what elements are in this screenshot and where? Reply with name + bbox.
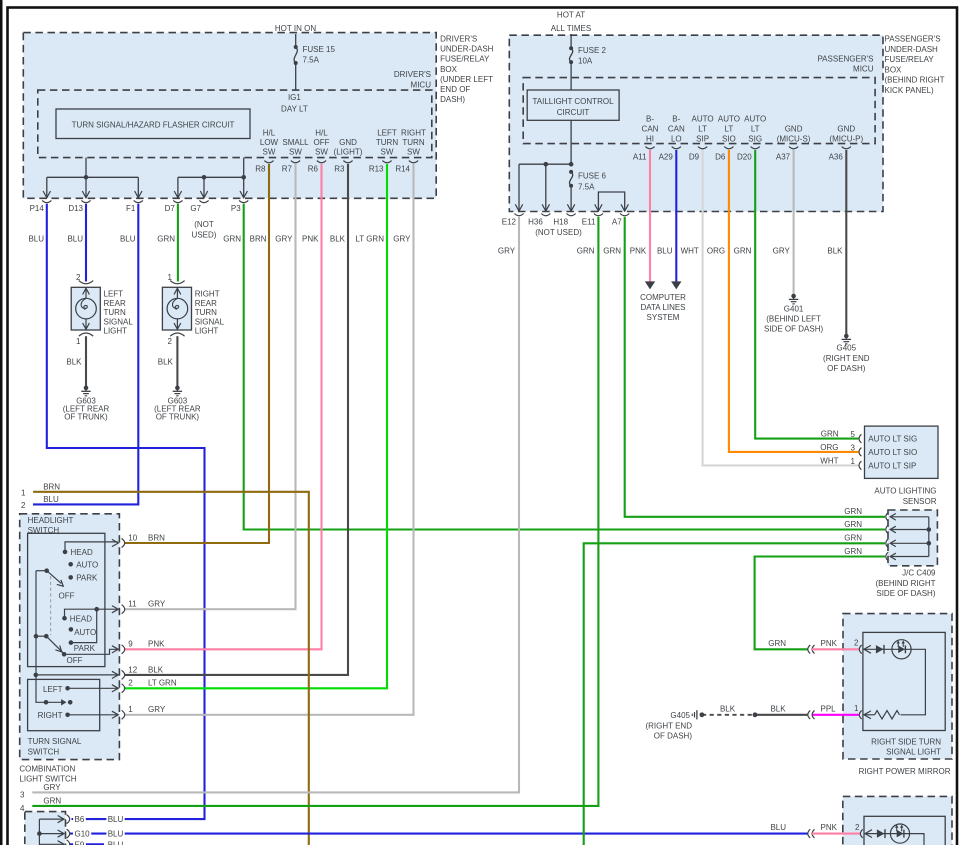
svg-text:LEFT: LEFT (43, 685, 63, 694)
svg-text:A11: A11 (633, 153, 647, 162)
left rear turn signal light filament (81, 298, 87, 309)
wire PNK A11 to computer data lines (649, 150, 651, 282)
svg-text:GRN: GRN (844, 547, 862, 556)
connector arc below left rear turn signal light (79, 333, 93, 336)
svg-text:10A: 10A (578, 57, 593, 66)
svg-text:P14: P14 (30, 204, 45, 213)
arrow into H18 (567, 204, 574, 211)
svg-text:1: 1 (851, 457, 856, 466)
svg-text:R13: R13 (369, 165, 384, 174)
svg-text:(BEHIND LEFT: (BEHIND LEFT (766, 315, 821, 324)
svg-text:OF TRUNK): OF TRUNK) (64, 412, 108, 421)
turn signal LEFT contact (65, 686, 70, 691)
mirror pin 2 arrow (864, 645, 871, 653)
wire BLU P14 to B6 (47, 204, 205, 819)
wire BLK splice to connector (755, 714, 808, 716)
svg-text:GRN: GRN (157, 234, 175, 243)
J/C C409 junction row2 (927, 527, 932, 532)
svg-text:BLU: BLU (108, 840, 124, 845)
svg-text:GND: GND (837, 124, 855, 133)
J/C C409 internal branch row 2 (890, 529, 929, 531)
svg-text:SIGNAL LIGHT: SIGNAL LIGHT (886, 747, 941, 756)
wire fuse 2 to taillight circuit (570, 62, 572, 90)
svg-text:HI: HI (646, 134, 654, 143)
svg-text:7.5A: 7.5A (303, 56, 320, 65)
svg-text:LT GRN: LT GRN (355, 234, 384, 243)
svg-text:DAY LT: DAY LT (281, 105, 308, 114)
left mirror pin 2 arc (860, 829, 862, 838)
bottom connector internal bus (38, 819, 40, 845)
switch A AUTO contact (68, 562, 73, 567)
J/C C409 pin arrow row 4 (890, 553, 896, 560)
wire PPL to right mirror pin 1 (812, 714, 859, 716)
left rear turn signal light bulb circle (76, 298, 97, 319)
svg-text:J/C C409: J/C C409 (902, 569, 936, 578)
switch pin 11 arc (122, 605, 125, 614)
passenger's under-dash fuse/relay box (509, 35, 883, 211)
wire OFF-B to pin 9 (64, 649, 118, 654)
svg-text:(RIGHT END: (RIGHT END (645, 721, 692, 730)
auto lighting sensor pin 5 arc (859, 434, 861, 443)
svg-text:LT GRN: LT GRN (148, 679, 177, 688)
svg-text:1: 1 (167, 273, 172, 282)
turn signal switch box (28, 679, 100, 730)
svg-text:2: 2 (21, 501, 26, 510)
wire to H36 arrow (545, 164, 547, 211)
svg-text:11: 11 (128, 600, 137, 609)
svg-text:RIGHT SIDE TURN: RIGHT SIDE TURN (871, 738, 941, 747)
svg-text:HEAD: HEAD (71, 548, 93, 557)
svg-text:A7: A7 (612, 217, 622, 226)
splice junction dot (569, 162, 574, 167)
left mirror turn signal light box (864, 816, 945, 845)
svg-text:G10: G10 (75, 830, 91, 839)
passenger MICU pin D6 (724, 147, 733, 149)
svg-text:CIRCUIT: CIRCUIT (557, 108, 590, 117)
driver MICU pin R13 (382, 161, 391, 163)
wire to pin arrow (243, 177, 245, 198)
LED arrows (left mirror) (896, 827, 898, 832)
svg-text:A29: A29 (659, 153, 674, 162)
wire fuse 6 to H18 arrow (570, 186, 572, 211)
wire GRN to J/C C409 row3 (off page) (584, 543, 885, 845)
svg-text:R14: R14 (395, 165, 410, 174)
svg-text:H/L: H/L (263, 128, 276, 137)
right rear turn signal light filament lead top (176, 287, 178, 298)
switch pin 2 arc (122, 684, 125, 693)
inline connector BLU-PNK (left mirror) (808, 829, 810, 838)
ground G603 (right rear turn signal light) (175, 386, 180, 391)
svg-text:USED): USED) (192, 231, 217, 240)
driver box pin D13 (81, 200, 90, 202)
turn signal RIGHT contact (65, 713, 70, 718)
switch B OFF contact (62, 652, 67, 657)
svg-text:BLU: BLU (120, 234, 136, 243)
J/C C409 pin arc row 3 (886, 539, 888, 548)
left rear turn signal light filament lead top (85, 287, 87, 298)
svg-text:MICU: MICU (853, 65, 874, 74)
svg-text:BLU: BLU (657, 246, 673, 255)
bottom connector branch to B6 (39, 818, 63, 820)
svg-text:GRN: GRN (844, 520, 862, 529)
taillight control circuit box (527, 90, 619, 120)
mirror pin 1 arc (859, 711, 861, 720)
wire BRN R8 to headlight switch pin 10 (125, 164, 269, 543)
arrow into A7 (621, 204, 628, 211)
svg-text:SIP: SIP (696, 134, 709, 143)
svg-text:SIGNAL: SIGNAL (104, 317, 134, 326)
wire GRN A7 to J/C C409 row1 (625, 217, 885, 517)
svg-text:BOX: BOX (440, 65, 458, 74)
wire HEAD-B to pin 11 (65, 609, 118, 618)
headlight switch contact box (28, 533, 105, 666)
junction connector J/C C409 box (888, 510, 937, 566)
J/C C409 pin arrow row 2 (890, 526, 896, 533)
svg-text:H36: H36 (528, 217, 543, 226)
wire BLU E9 stub (70, 843, 104, 845)
turn signal arm arrow (61, 699, 66, 705)
passenger's MICU box (523, 78, 875, 144)
svg-text:AUTO LT SIO: AUTO LT SIO (868, 448, 917, 457)
connector arc into left rear turn signal light (79, 281, 93, 284)
switch A pivot link (36, 570, 47, 572)
wire GRN J/C C409 row4 to right mirror (755, 557, 885, 650)
svg-text:ORG: ORG (707, 246, 725, 255)
svg-text:BLU: BLU (28, 234, 44, 243)
svg-text:BLK: BLK (330, 234, 346, 243)
svg-text:2: 2 (128, 679, 133, 688)
bottom connector pin B6 arrow (58, 816, 64, 823)
LED circle (mirror) (892, 640, 911, 659)
wire flasher to splice (P3 leg) (243, 158, 245, 178)
left mirror pin 2 arrow (865, 830, 872, 838)
switch A PARK contact (68, 575, 73, 580)
svg-text:ALL TIMES: ALL TIMES (551, 24, 591, 33)
svg-text:(UNDER LEFT: (UNDER LEFT (440, 75, 493, 84)
svg-text:1: 1 (76, 337, 81, 346)
J/C C409 internal bus (928, 517, 930, 557)
svg-text:AUTO LT SIG: AUTO LT SIG (868, 435, 917, 444)
svg-text:7.5A: 7.5A (578, 183, 595, 192)
driver box pin P14 (42, 200, 51, 202)
svg-text:GRN: GRN (844, 534, 862, 543)
switch B arm arrow (55, 646, 61, 652)
svg-text:(BEHIND RIGHT: (BEHIND RIGHT (885, 76, 945, 85)
mirror internal wire resistor to pin 1 (864, 714, 875, 716)
svg-text:KICK PANEL): KICK PANEL) (885, 86, 935, 95)
left rear turn signal light filament lead bottom (85, 319, 87, 330)
svg-text:LT: LT (751, 124, 760, 133)
svg-text:TURN: TURN (104, 308, 126, 317)
svg-text:PNK: PNK (821, 823, 838, 832)
diode (left mirror) (877, 829, 885, 837)
right rear turn signal light filament (172, 298, 178, 309)
svg-text:LIGHT: LIGHT (195, 327, 219, 336)
svg-text:10: 10 (128, 533, 137, 542)
arrow into pin (135, 191, 142, 198)
svg-text:CAN: CAN (668, 124, 685, 133)
svg-text:BRN: BRN (148, 533, 165, 542)
switch B pivot link (36, 635, 46, 637)
wire BRN 1 across to bottom (33, 492, 309, 845)
bottom connector junction at G10 (37, 831, 42, 836)
svg-text:R6: R6 (308, 165, 319, 174)
svg-text:SIG: SIG (748, 134, 762, 143)
wire RIGHT to pin 1 (68, 714, 118, 716)
svg-text:RIGHT: RIGHT (401, 128, 426, 137)
svg-text:(MICU-S): (MICU-S) (777, 134, 811, 143)
connector arc into right rear turn signal light (170, 281, 184, 284)
svg-text:GRN: GRN (768, 639, 786, 648)
arrow A29 to computer data lines (671, 281, 681, 289)
svg-text:TAILLIGHT CONTROL: TAILLIGHT CONTROL (532, 97, 614, 106)
wire from HOT AT ALL TIMES to fuse 2 (570, 34, 572, 48)
left power mirror dashed box (843, 796, 952, 845)
svg-text:GRN: GRN (577, 246, 595, 255)
svg-text:BRN: BRN (43, 482, 60, 491)
svg-text:PASSENGER'S: PASSENGER'S (885, 35, 941, 44)
wire fuse 15 to MICU (295, 63, 297, 90)
passenger MICU pin A29 (672, 147, 681, 149)
svg-text:BLK: BLK (770, 704, 786, 713)
driver box pin P3 (239, 200, 248, 202)
svg-text:LT: LT (698, 124, 707, 133)
turn signal arm (46, 701, 63, 703)
svg-text:DATA LINES: DATA LINES (640, 303, 685, 312)
wire WHT D9 to auto lighting sensor pin 1 (703, 150, 859, 465)
mirror pin 2 arc (859, 645, 861, 654)
svg-text:PNK: PNK (148, 640, 165, 649)
fuse F6 (569, 170, 573, 174)
wire GRY A37 to ground G401 (793, 150, 795, 294)
auto lighting sensor pin 3 arc (859, 448, 861, 457)
svg-text:RIGHT: RIGHT (38, 711, 63, 720)
wire BLU D13 to left rear turn signal light (85, 204, 87, 282)
svg-text:LIGHT SWITCH: LIGHT SWITCH (19, 775, 76, 784)
svg-text:GND: GND (785, 124, 803, 133)
svg-text:GRY: GRY (275, 234, 293, 243)
switch pin 12 arrow (112, 671, 118, 678)
svg-text:B6: B6 (75, 815, 85, 824)
svg-text:D9: D9 (689, 153, 700, 162)
svg-text:TURN: TURN (195, 308, 217, 317)
wire LEFT to pin 2 (68, 687, 118, 689)
passenger MICU pin A37 (789, 147, 798, 149)
svg-text:2: 2 (855, 823, 860, 832)
svg-text:R3: R3 (334, 165, 345, 174)
svg-text:BLK: BLK (158, 358, 174, 367)
wire BLK left rear turn signal light to ground (85, 336, 87, 386)
svg-text:AUTO: AUTO (76, 561, 98, 570)
wire taillight circuit to splice (570, 120, 572, 164)
bottom connector branch to E9 (39, 843, 63, 845)
svg-text:2: 2 (854, 639, 859, 648)
right rear turn signal light bulb circle (167, 298, 188, 319)
wire to pin arrow (85, 177, 87, 198)
headlight switch dashed box (20, 514, 120, 760)
bottom connector pin G10 arrow (58, 830, 64, 837)
svg-text:SW: SW (407, 147, 420, 156)
svg-text:G7: G7 (190, 204, 201, 213)
svg-text:CAN: CAN (642, 124, 659, 133)
svg-text:BLK: BLK (720, 704, 736, 713)
switch common wire (36, 571, 46, 703)
wire BLU A29 to computer data lines (675, 150, 677, 282)
switch A arm arrow (57, 580, 64, 586)
svg-text:B-: B- (646, 115, 654, 124)
right rear turn signal light filament lead bottom (176, 319, 178, 330)
J/C C409 internal branch row 4 (890, 556, 929, 558)
wire common to pin 12 (36, 674, 118, 676)
bottom connector pin E9 arc (67, 840, 70, 845)
left rear turn signal light arrow down (83, 323, 90, 329)
switch gang linkage (50, 576, 52, 635)
svg-text:R7: R7 (282, 165, 293, 174)
switch pin 1 arc (122, 710, 125, 719)
junction at H36 (544, 162, 549, 167)
svg-text:AUTO LIGHTING: AUTO LIGHTING (874, 487, 936, 496)
driver MICU pin R7 (291, 161, 300, 163)
svg-text:BLK: BLK (66, 358, 82, 367)
wire to pin arrow (203, 177, 205, 198)
svg-text:GRN: GRN (734, 246, 752, 255)
turn signal arm end contact (68, 700, 73, 705)
svg-text:TURN SIGNAL: TURN SIGNAL (28, 737, 82, 746)
svg-text:DRIVER'S: DRIVER'S (440, 34, 477, 43)
svg-text:SIDE OF DASH): SIDE OF DASH) (876, 589, 935, 598)
wire HEAD-A to pin 10 (65, 542, 118, 552)
wire LT GRN R13 to turn signal switch pin 2 (125, 164, 387, 688)
driver MICU pin R3 (343, 161, 352, 163)
switch A HEAD contact (63, 550, 68, 555)
svg-text:4: 4 (20, 804, 25, 813)
J/C C409 junction row3 (927, 541, 932, 546)
svg-text:B-: B- (672, 115, 680, 124)
svg-text:E9: E9 (75, 840, 85, 845)
svg-text:LT: LT (725, 124, 734, 133)
svg-text:GRN: GRN (43, 797, 61, 806)
svg-text:P3: P3 (231, 204, 241, 213)
wire BLK dashed to G405 (702, 714, 752, 716)
bottom connector pin G10 arc (67, 829, 70, 838)
svg-text:LO: LO (671, 134, 682, 143)
svg-text:BLU: BLU (67, 234, 83, 243)
arrow A11 to computer data lines (645, 281, 655, 289)
svg-text:GRY: GRY (773, 246, 791, 255)
svg-text:BLU: BLU (108, 830, 124, 839)
junction at G7 (202, 175, 207, 180)
arrow into pin (174, 191, 181, 198)
svg-text:OFF: OFF (59, 591, 75, 600)
svg-text:MICU: MICU (411, 80, 432, 89)
J/C C409 pin arrow row 1 (890, 514, 896, 521)
svg-text:OF TRUNK): OF TRUNK) (156, 412, 200, 421)
ground G405 (top right) (844, 334, 849, 339)
svg-text:SIO: SIO (722, 134, 736, 143)
left rear turn signal light arrow up (83, 288, 90, 294)
svg-text:UNDER-DASH: UNDER-DASH (440, 44, 494, 53)
svg-text:LIGHT: LIGHT (104, 327, 128, 336)
wire to pin arrow (137, 177, 139, 198)
passenger box pin E11 (594, 214, 603, 216)
svg-text:GRN: GRN (603, 246, 621, 255)
left mirror internal wire right (909, 834, 925, 845)
arrow into pin (43, 191, 50, 198)
svg-text:PARK: PARK (76, 574, 98, 583)
svg-text:D20: D20 (737, 153, 752, 162)
wire junction to PARK-B (71, 609, 97, 642)
svg-text:WHT: WHT (681, 246, 699, 255)
svg-text:GRN: GRN (844, 507, 862, 516)
svg-text:GRY: GRY (43, 783, 61, 792)
svg-text:PNK: PNK (821, 639, 838, 648)
switch pin 1 arrow (112, 711, 118, 718)
svg-text:IG1: IG1 (288, 93, 301, 102)
switch pin 11 arrow (112, 606, 118, 613)
svg-text:HEADLIGHT: HEADLIGHT (28, 516, 74, 525)
svg-text:3: 3 (851, 443, 856, 452)
J/C C409 pin arc row 4 (886, 552, 888, 561)
svg-text:(RIGHT END: (RIGHT END (823, 354, 870, 363)
J/C C409 pin arrow row 3 (890, 540, 896, 547)
arrow into H36 (542, 204, 549, 211)
svg-text:GND: GND (339, 138, 357, 147)
driver MICU pin R8 (264, 161, 273, 163)
svg-text:SW: SW (289, 147, 302, 156)
svg-text:PPL: PPL (821, 704, 837, 713)
splice bar D7-G7-P3 (178, 176, 244, 178)
svg-text:SENSOR: SENSOR (903, 497, 937, 506)
svg-text:REAR: REAR (195, 299, 217, 308)
svg-text:G405: G405 (837, 344, 857, 353)
svg-text:GRN: GRN (821, 430, 839, 439)
wire GRN 4 from E11 (32, 217, 598, 806)
wire GRY R14 to turn signal switch pin 1 (125, 164, 414, 715)
wire BLU F1 to wire 2 (33, 204, 138, 505)
svg-text:DRIVER'S: DRIVER'S (394, 70, 431, 79)
junction at P3 (241, 175, 246, 180)
svg-text:BLU: BLU (108, 815, 124, 824)
svg-text:GRY: GRY (498, 246, 516, 255)
svg-text:AUTO: AUTO (74, 628, 96, 637)
auto lighting sensor box (865, 426, 939, 478)
svg-text:GRY: GRY (148, 705, 166, 714)
wire ORG D6 to auto lighting sensor pin 3 (729, 150, 859, 452)
switch A arm (47, 571, 62, 584)
wire BLK A36 to ground G405 (845, 150, 847, 334)
switch A pivot dot (44, 568, 49, 573)
svg-text:END OF: END OF (440, 85, 470, 94)
left rear turn signal light box (71, 287, 100, 330)
svg-text:BLU: BLU (43, 495, 59, 504)
driver's MICU box (38, 90, 432, 158)
svg-text:TURN SIGNAL/HAZARD FLASHER CIR: TURN SIGNAL/HAZARD FLASHER CIRCUIT (72, 121, 235, 130)
svg-text:F1: F1 (126, 204, 136, 213)
wire flasher to splice (D13 leg) (85, 158, 87, 178)
svg-text:1: 1 (854, 704, 859, 713)
svg-text:LOW: LOW (260, 138, 279, 147)
driver box pin D7 (173, 200, 182, 202)
svg-text:D13: D13 (68, 204, 83, 213)
arrow into E12 (515, 204, 522, 211)
switch B AUTO contact (69, 627, 74, 632)
svg-text:GRY: GRY (148, 600, 166, 609)
svg-text:COMPUTER: COMPUTER (640, 293, 686, 302)
wire PNK R6 to headlight switch pin 9 (125, 164, 322, 649)
svg-text:A36: A36 (829, 153, 844, 162)
driver box pin G7 (199, 200, 208, 202)
wire BLU G10 to right mirror (70, 833, 808, 835)
